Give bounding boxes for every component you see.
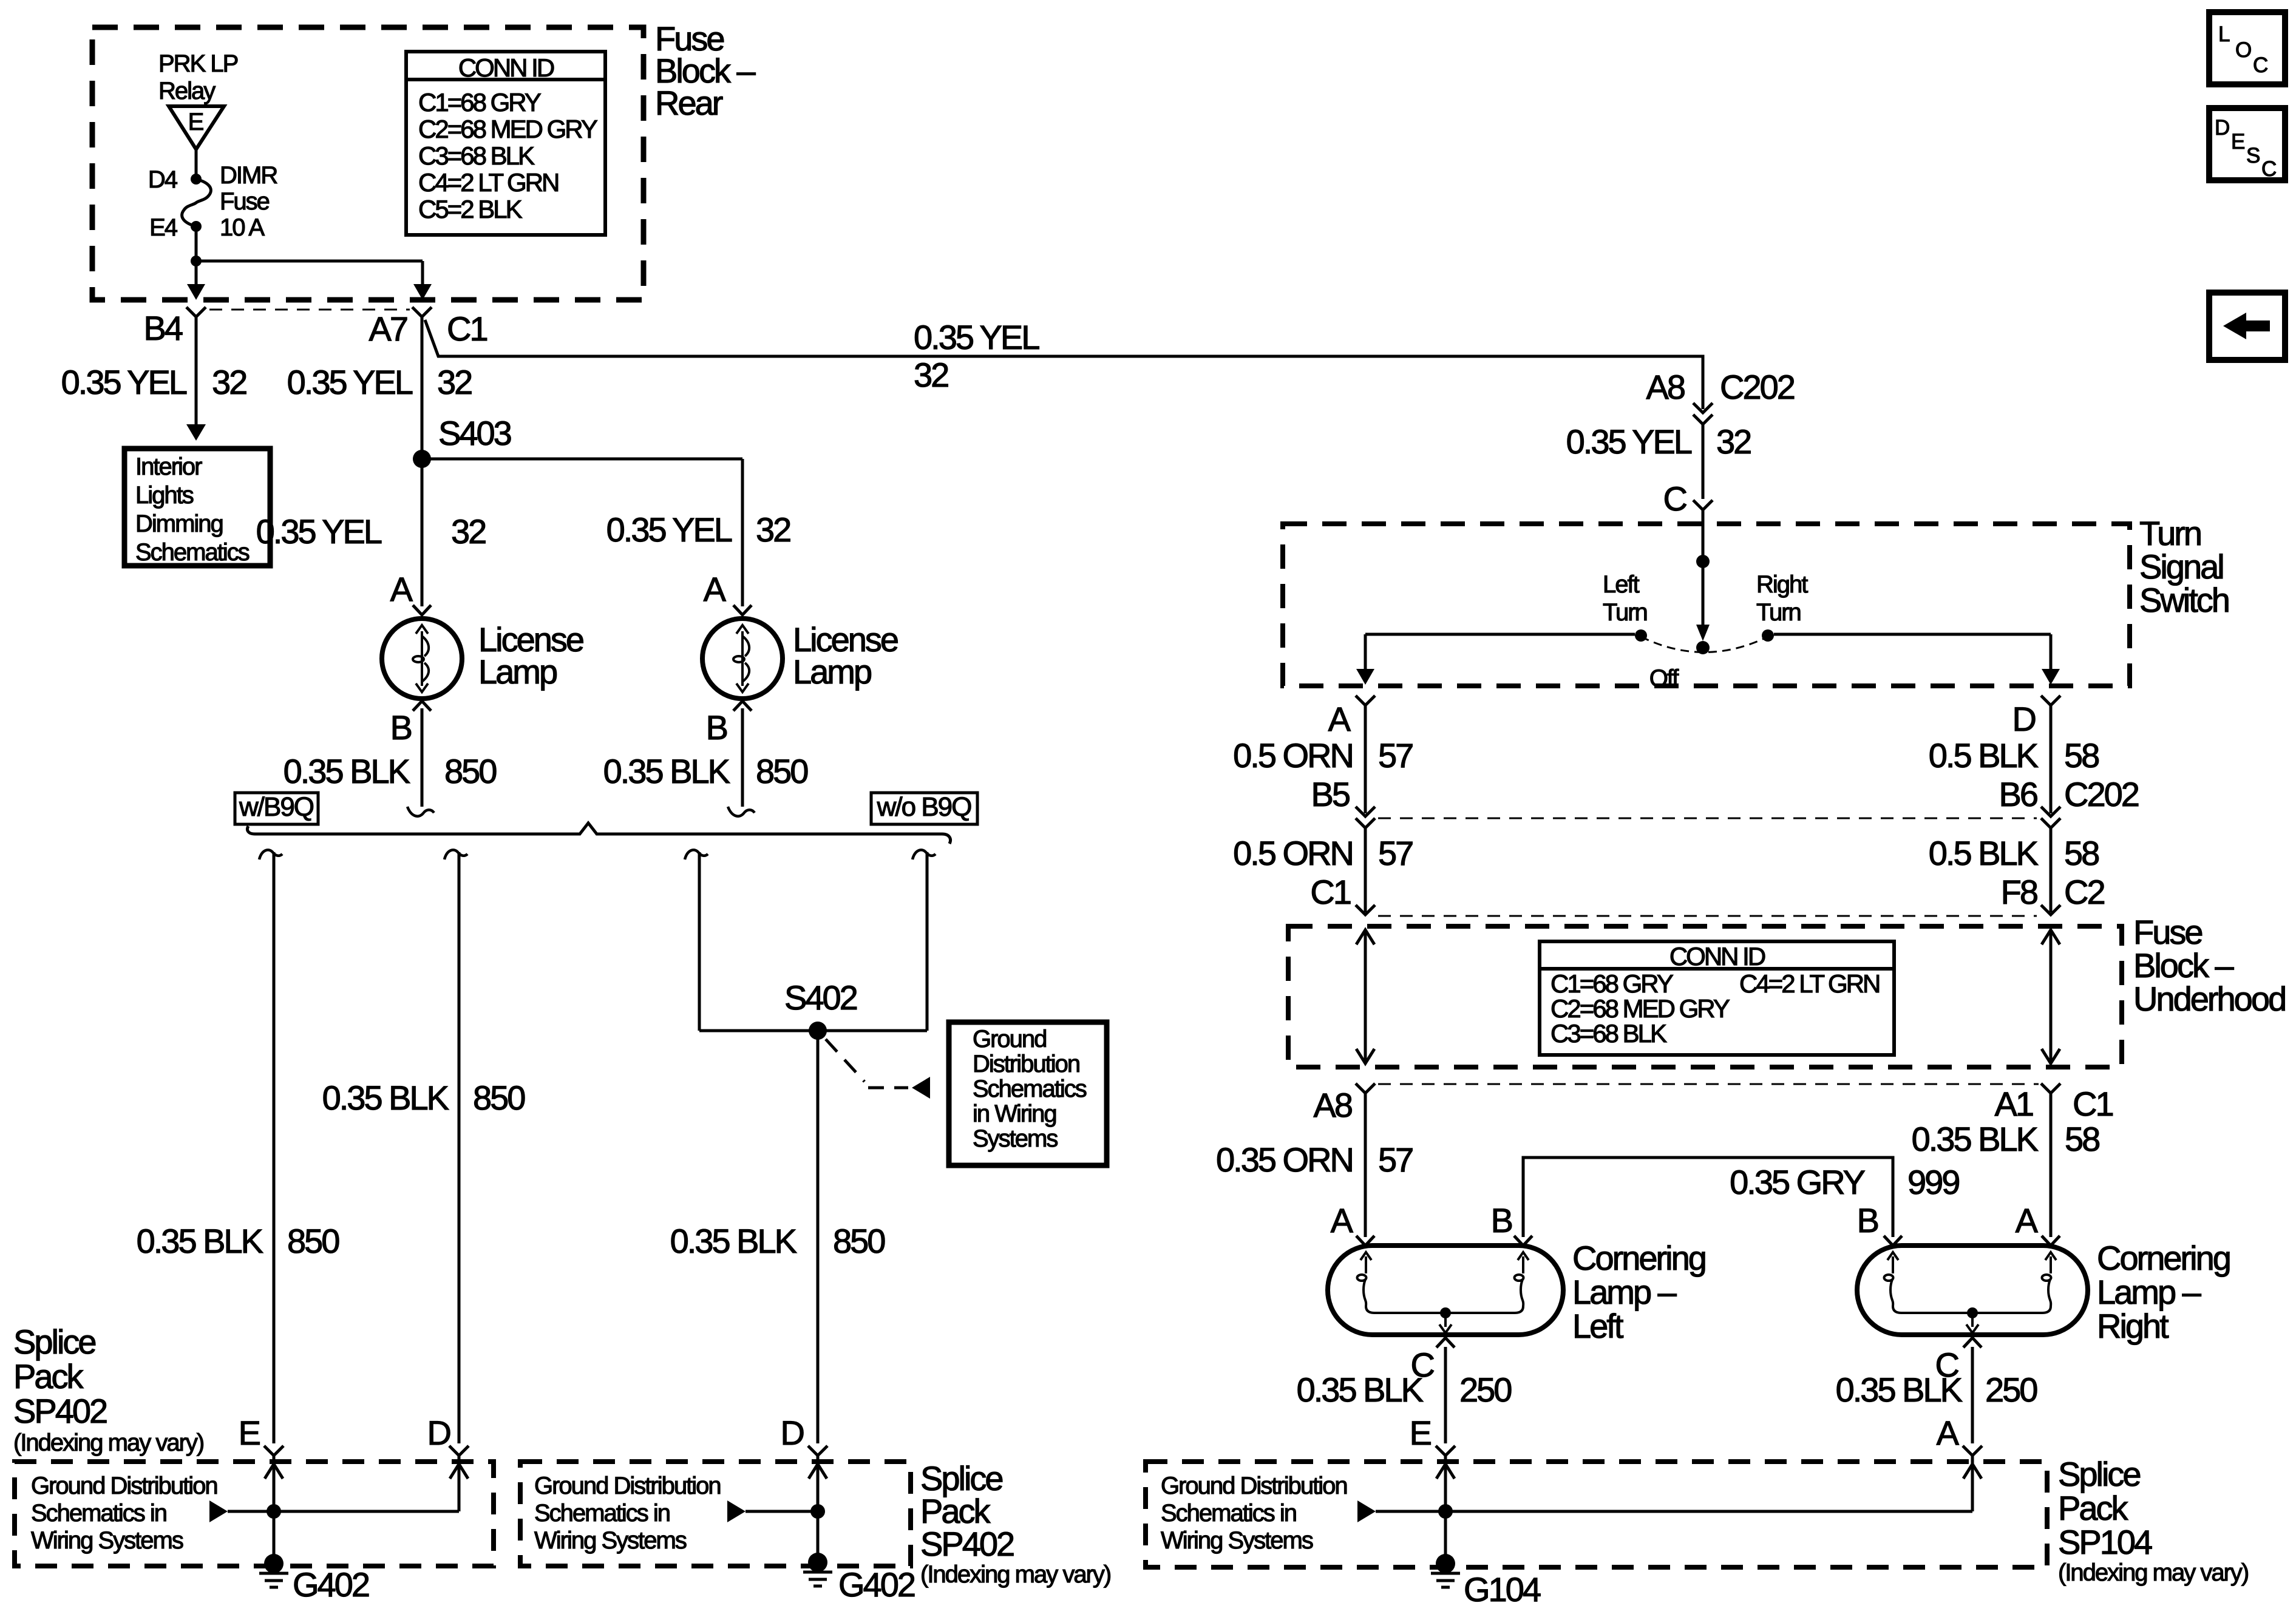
svg-text:Wiring Systems: Wiring Systems (1161, 1527, 1313, 1554)
svg-text:Left: Left (1603, 571, 1640, 598)
svg-text:Lamp: Lamp (793, 653, 871, 691)
svg-text:Left: Left (1572, 1307, 1624, 1345)
svg-text:57: 57 (1378, 1141, 1413, 1179)
svg-text:CONN ID: CONN ID (458, 53, 554, 82)
svg-text:B5: B5 (1311, 775, 1350, 813)
svg-text:C3=68 BLK: C3=68 BLK (1550, 1019, 1667, 1048)
svg-text:Relay: Relay (158, 78, 216, 104)
svg-text:B: B (1491, 1201, 1512, 1239)
svg-text:0.35 BLK: 0.35 BLK (1297, 1371, 1424, 1409)
svg-text:Ground Distribution: Ground Distribution (534, 1473, 721, 1499)
svg-text:Turn: Turn (2139, 514, 2201, 552)
svg-text:A: A (1331, 1201, 1354, 1239)
svg-text:C5=2 BLK: C5=2 BLK (418, 195, 523, 223)
svg-text:A: A (704, 570, 727, 608)
svg-text:0.35 GRY: 0.35 GRY (1730, 1163, 1866, 1201)
svg-text:D: D (2215, 116, 2229, 140)
svg-text:D4: D4 (148, 166, 178, 193)
svg-text:0.35 BLK: 0.35 BLK (1912, 1120, 2039, 1158)
svg-text:Lights: Lights (135, 482, 194, 509)
svg-text:250: 250 (1985, 1371, 2037, 1409)
svg-text:C1=68 GRY: C1=68 GRY (418, 88, 542, 117)
svg-text:C2=68 MED GRY: C2=68 MED GRY (418, 115, 598, 143)
svg-text:in Wiring: in Wiring (973, 1100, 1056, 1127)
svg-text:A8: A8 (1646, 368, 1685, 406)
svg-text:Cornering: Cornering (1572, 1239, 1705, 1277)
svg-text:C202: C202 (1720, 368, 1795, 406)
svg-text:32: 32 (212, 363, 246, 401)
svg-text:D: D (2012, 700, 2036, 738)
svg-text:C2: C2 (2064, 873, 2104, 911)
svg-text:E: E (2231, 130, 2244, 154)
svg-text:Wiring Systems: Wiring Systems (534, 1527, 687, 1554)
svg-text:Cornering: Cornering (2097, 1239, 2230, 1277)
svg-text:Systems: Systems (973, 1125, 1058, 1152)
svg-text:58: 58 (2064, 834, 2099, 872)
svg-text:B: B (1857, 1201, 1878, 1239)
svg-text:G402: G402 (838, 1565, 915, 1604)
svg-text:C1: C1 (447, 310, 487, 348)
svg-text:CONN ID: CONN ID (1669, 942, 1765, 971)
svg-text:Schematics in: Schematics in (534, 1500, 670, 1527)
svg-text:0.35 BLK: 0.35 BLK (137, 1222, 263, 1260)
svg-text:Rear: Rear (655, 84, 723, 122)
svg-text:B6: B6 (1999, 775, 2037, 813)
svg-text:D: D (427, 1414, 450, 1452)
svg-text:Lamp –: Lamp – (1572, 1273, 1677, 1311)
svg-text:A: A (1328, 700, 1351, 738)
svg-text:Schematics: Schematics (973, 1076, 1087, 1102)
svg-text:A: A (1937, 1414, 1960, 1452)
svg-text:C: C (1663, 480, 1687, 518)
svg-text:Ground Distribution: Ground Distribution (1161, 1473, 1347, 1499)
svg-text:w/B9Q: w/B9Q (239, 792, 314, 822)
svg-text:0.35 YEL: 0.35 YEL (256, 512, 382, 551)
svg-text:Schematics: Schematics (135, 539, 250, 566)
svg-text:A1: A1 (1995, 1085, 2033, 1123)
svg-text:850: 850 (444, 752, 496, 790)
svg-text:Splice: Splice (2058, 1455, 2140, 1493)
svg-text:(Indexing may vary): (Indexing may vary) (920, 1561, 1110, 1588)
svg-text:Right: Right (2097, 1307, 2169, 1345)
svg-text:G402: G402 (293, 1565, 369, 1604)
svg-text:S402: S402 (784, 978, 857, 1017)
svg-text:C4=2 LT GRN: C4=2 LT GRN (418, 168, 558, 197)
svg-text:Distribution: Distribution (973, 1051, 1079, 1077)
svg-text:Pack: Pack (13, 1357, 84, 1395)
svg-text:B: B (706, 708, 727, 747)
svg-text:A7: A7 (369, 310, 407, 348)
svg-text:PRK LP: PRK LP (158, 50, 238, 77)
svg-text:Splice: Splice (13, 1323, 95, 1361)
svg-text:Turn: Turn (1756, 599, 1801, 626)
svg-text:Ground Distribution: Ground Distribution (31, 1473, 217, 1499)
svg-text:E: E (1410, 1414, 1431, 1452)
svg-text:999: 999 (1907, 1163, 1959, 1201)
svg-text:C3=68 BLK: C3=68 BLK (418, 141, 535, 170)
svg-text:C: C (2253, 53, 2267, 77)
svg-text:C2=68 MED GRY: C2=68 MED GRY (1550, 994, 1730, 1023)
svg-text:850: 850 (833, 1222, 885, 1260)
svg-text:C202: C202 (2064, 775, 2139, 813)
svg-text:Underhood: Underhood (2133, 980, 2285, 1018)
svg-text:0.35 YEL: 0.35 YEL (61, 363, 187, 401)
svg-text:O: O (2235, 38, 2251, 62)
svg-text:32: 32 (451, 512, 486, 551)
svg-text:0.35 YEL: 0.35 YEL (606, 510, 732, 549)
svg-text:C1: C1 (2073, 1085, 2113, 1123)
svg-text:Off: Off (1649, 665, 1680, 692)
svg-text:0.5 ORN: 0.5 ORN (1233, 736, 1353, 775)
svg-text:DIMR: DIMR (220, 162, 277, 189)
svg-text:Switch: Switch (2139, 581, 2229, 619)
svg-text:0.35 YEL: 0.35 YEL (287, 363, 413, 401)
svg-text:0.5 ORN: 0.5 ORN (1233, 834, 1353, 872)
svg-text:E: E (239, 1414, 260, 1452)
svg-text:SP402: SP402 (13, 1392, 107, 1430)
svg-text:Pack: Pack (2058, 1489, 2128, 1527)
svg-text:L: L (2218, 22, 2230, 46)
svg-text:0.35 BLK: 0.35 BLK (603, 752, 730, 790)
svg-text:A: A (390, 570, 413, 608)
svg-text:w/o B9Q: w/o B9Q (877, 792, 972, 822)
svg-text:Turn: Turn (1603, 599, 1647, 626)
svg-text:0.35 YEL: 0.35 YEL (914, 318, 1039, 356)
svg-text:58: 58 (2064, 736, 2099, 775)
svg-text:A: A (2016, 1201, 2039, 1239)
svg-text:B4: B4 (144, 309, 183, 347)
svg-text:C4=2 LT GRN: C4=2 LT GRN (1739, 969, 1879, 998)
svg-text:Fuse: Fuse (220, 188, 270, 215)
svg-text:F8: F8 (2001, 873, 2037, 911)
svg-text:57: 57 (1378, 736, 1413, 775)
svg-text:850: 850 (756, 752, 807, 790)
svg-text:0.35 BLK: 0.35 BLK (1836, 1371, 1963, 1409)
svg-text:S: S (2246, 144, 2260, 168)
svg-text:0.5 BLK: 0.5 BLK (1929, 736, 2039, 775)
svg-text:32: 32 (756, 510, 790, 549)
svg-text:E4: E4 (149, 214, 178, 241)
svg-text:0.35 BLK: 0.35 BLK (670, 1222, 797, 1260)
svg-text:58: 58 (2065, 1120, 2099, 1158)
svg-text:Lamp –: Lamp – (2097, 1273, 2202, 1311)
svg-text:32: 32 (437, 363, 472, 401)
svg-text:250: 250 (1459, 1371, 1511, 1409)
svg-text:A8: A8 (1314, 1086, 1352, 1124)
svg-text:Interior: Interior (135, 453, 202, 480)
svg-text:0.35 BLK: 0.35 BLK (284, 752, 410, 790)
svg-text:Fuse: Fuse (2133, 913, 2202, 951)
svg-text:SP402: SP402 (920, 1525, 1014, 1563)
svg-text:C1=68 GRY: C1=68 GRY (1550, 969, 1674, 998)
svg-text:850: 850 (287, 1222, 339, 1260)
svg-text:B: B (390, 708, 412, 747)
svg-text:Schematics in: Schematics in (1161, 1500, 1296, 1527)
svg-text:SP104: SP104 (2058, 1523, 2152, 1561)
svg-text:Schematics in: Schematics in (31, 1500, 166, 1527)
svg-text:57: 57 (1378, 834, 1413, 872)
svg-text:0.5 BLK: 0.5 BLK (1929, 834, 2039, 872)
svg-text:D: D (781, 1414, 804, 1452)
svg-text:E: E (188, 109, 203, 135)
svg-text:0.35 ORN: 0.35 ORN (1216, 1141, 1353, 1179)
svg-text:Dimming: Dimming (135, 510, 223, 537)
svg-text:Wiring Systems: Wiring Systems (31, 1527, 183, 1554)
svg-text:0.35 YEL: 0.35 YEL (1566, 422, 1692, 461)
svg-text:850: 850 (473, 1079, 525, 1117)
svg-text:Block –: Block – (2133, 946, 2234, 985)
svg-text:10 A: 10 A (220, 214, 265, 241)
svg-text:G104: G104 (1464, 1570, 1541, 1609)
svg-text:Right: Right (1756, 571, 1808, 598)
svg-text:(Indexing may vary): (Indexing may vary) (13, 1429, 203, 1456)
svg-text:32: 32 (914, 356, 948, 394)
svg-text:S403: S403 (438, 414, 511, 452)
svg-text:(Indexing may vary): (Indexing may vary) (2058, 1559, 2248, 1586)
svg-text:C1: C1 (1310, 873, 1350, 911)
svg-text:Lamp: Lamp (478, 653, 557, 691)
svg-text:0.35 BLK: 0.35 BLK (322, 1079, 449, 1117)
svg-text:32: 32 (1716, 422, 1751, 461)
svg-text:C: C (2261, 157, 2276, 181)
svg-text:Ground: Ground (973, 1026, 1046, 1053)
svg-text:Signal: Signal (2139, 547, 2223, 586)
